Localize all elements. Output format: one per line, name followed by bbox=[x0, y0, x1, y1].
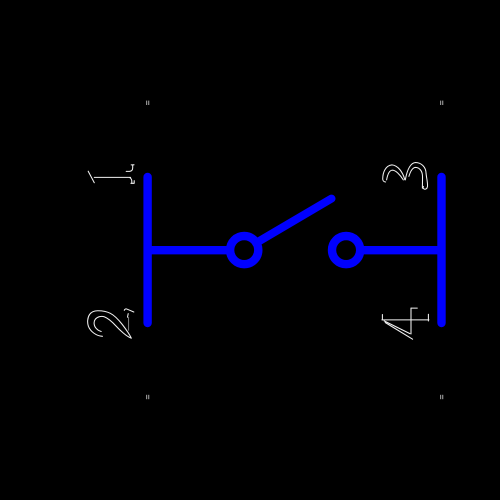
pin 4 endpoint tick bbox=[440, 395, 443, 399]
pin 2 endpoint tick bbox=[146, 395, 149, 399]
switch SW1 pole bar left (pins 1-2 side) bbox=[143, 177, 151, 323]
pin 3 endpoint tick bbox=[440, 101, 443, 105]
switch SW1 pole bar right (pins 3-4 side) bbox=[437, 177, 445, 323]
pin number 1 (rotated hairline serif digit) bbox=[88, 165, 134, 184]
contact circle right bbox=[332, 236, 360, 264]
wire right contact to right bar bbox=[359, 246, 442, 254]
pin 1 endpoint tick bbox=[146, 101, 149, 105]
wire left bar to left contact bbox=[148, 246, 232, 254]
pin number 2 (rotated hairline serif digit) bbox=[88, 309, 134, 338]
contact circle left bbox=[230, 236, 258, 264]
pin number 3 (rotated hairline serif digit) bbox=[383, 163, 428, 190]
pin number 4 (rotated hairline serif digit) bbox=[382, 308, 429, 339]
switch actuator lever bbox=[256, 199, 332, 243]
